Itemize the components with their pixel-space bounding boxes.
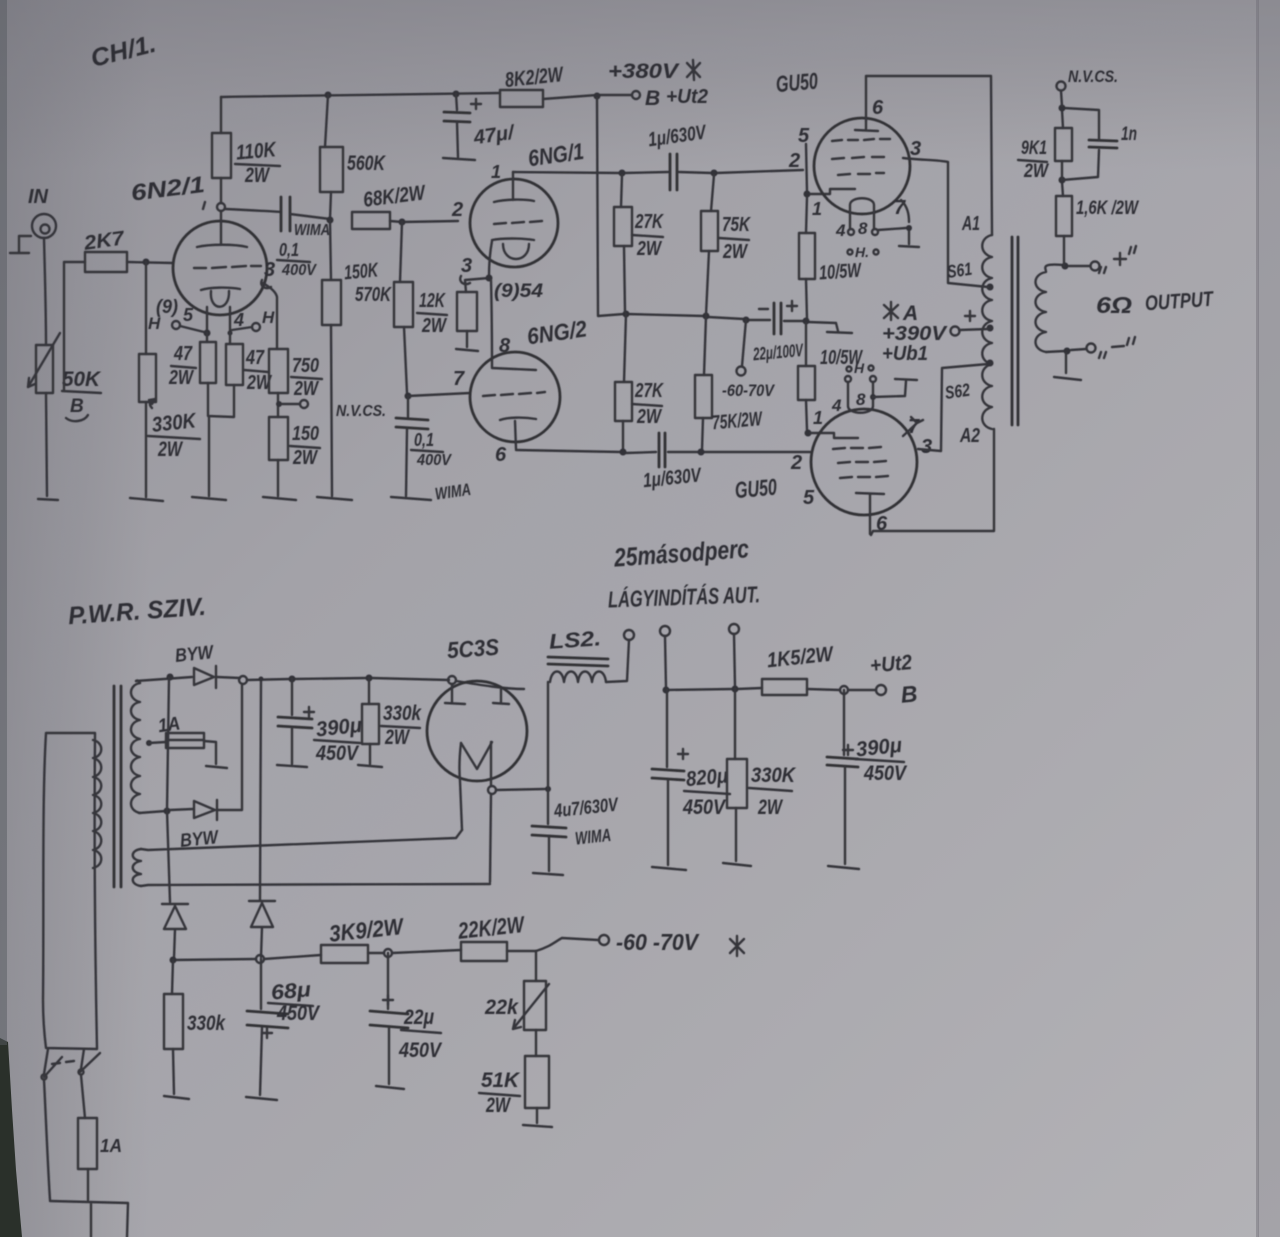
label 25 masodperc bbox=[612, 533, 750, 572]
svg-text:22μ: 22μ bbox=[403, 1006, 434, 1029]
svg-text:1A: 1A bbox=[100, 1136, 122, 1156]
svg-text:5: 5 bbox=[798, 125, 810, 147]
diode bias right bbox=[249, 901, 275, 957]
wire jack to pot bbox=[44, 238, 46, 345]
node cathode output bbox=[488, 786, 551, 794]
primary winding OPT bbox=[982, 235, 992, 429]
svg-text:4: 4 bbox=[233, 310, 244, 330]
terminal output plus bbox=[1069, 246, 1136, 273]
GU50 lower grid dashes bbox=[833, 447, 888, 478]
svg-text:(9)54: (9)54 bbox=[494, 281, 543, 302]
resistor 560K bbox=[320, 95, 386, 219]
resistor 1,6K/2W bbox=[1056, 182, 1140, 266]
svg-text:5: 5 bbox=[183, 305, 194, 325]
ground bar under 390u bbox=[277, 765, 307, 767]
label * A +390V +Ub1 bbox=[882, 302, 948, 365]
tube 6NG/2 label bbox=[525, 315, 588, 349]
potentiometer 50K/B bbox=[28, 333, 102, 421]
diode BYW upper bbox=[174, 642, 216, 688]
svg-text:390μ: 390μ bbox=[315, 714, 363, 742]
svg-text:330K: 330K bbox=[151, 409, 199, 437]
ground bar under 820u bbox=[652, 867, 686, 870]
terminal output minus bbox=[1071, 337, 1135, 358]
ground bar under 22u bbox=[376, 1086, 404, 1089]
tube GU50 lower envelope bbox=[811, 409, 917, 515]
resistor 8K2/2W bbox=[500, 63, 566, 107]
svg-text:B: B bbox=[70, 396, 84, 417]
node HV bottom bbox=[139, 808, 171, 815]
resistor 150/2W bbox=[269, 417, 320, 469]
B+ rail bbox=[663, 686, 877, 695]
svg-text:H: H bbox=[262, 308, 275, 327]
svg-text:+Ut2: +Ut2 bbox=[869, 651, 913, 678]
5C3S filament bbox=[461, 742, 492, 769]
node grid 6NG/2 bbox=[405, 368, 471, 400]
ground bar under 4u7 bbox=[533, 873, 563, 875]
capacitor 68u/450V bbox=[247, 959, 321, 1095]
node top wire junctions bbox=[325, 91, 601, 100]
svg-text:B: B bbox=[645, 87, 660, 110]
capacitor 22u/100V bbox=[752, 301, 805, 364]
node PSU top junctions bbox=[167, 674, 457, 685]
GU50 lower heater terminals 4 8 H bbox=[831, 360, 876, 415]
top B+ wire bbox=[221, 93, 631, 99]
ground bar under 47u bbox=[443, 158, 475, 160]
heater winding bbox=[133, 849, 141, 886]
svg-text:+Ub1: +Ub1 bbox=[882, 343, 928, 365]
tube 6NG/2 pin6 out bbox=[495, 421, 516, 466]
svg-text:1: 1 bbox=[813, 408, 823, 428]
ground bar mid rail right bbox=[827, 332, 852, 333]
anode loop wire A1 bbox=[866, 76, 992, 235]
svg-text:+380V: +380V bbox=[608, 60, 680, 83]
OPT core bbox=[1012, 237, 1018, 425]
wire switch left down bbox=[44, 1080, 50, 1200]
ground bar under 150K bbox=[317, 497, 352, 500]
svg-text:1n: 1n bbox=[1121, 124, 1137, 145]
svg-text:6: 6 bbox=[495, 444, 507, 466]
title P.W.R. SZIV. bbox=[67, 593, 207, 631]
svg-text:450V: 450V bbox=[276, 1002, 321, 1025]
svg-text:450V: 450V bbox=[863, 762, 908, 785]
tube 6N2/1 label bbox=[129, 171, 206, 209]
svg-text:9K1: 9K1 bbox=[1021, 138, 1047, 159]
svg-text:4: 4 bbox=[831, 396, 842, 415]
svg-text:400V: 400V bbox=[281, 262, 317, 279]
dark photo edge left strip bbox=[0, 0, 7, 1045]
svg-text:4: 4 bbox=[835, 221, 846, 240]
svg-text:2W: 2W bbox=[292, 447, 318, 469]
fuse 1A mains bbox=[78, 1075, 122, 1200]
svg-text:2W: 2W bbox=[636, 238, 662, 260]
svg-text:820μ: 820μ bbox=[685, 764, 729, 791]
terminal B +Ut2 bbox=[632, 86, 708, 110]
resistor 330K/2W grid leak bbox=[139, 262, 200, 461]
capacitor 390u/450V second bbox=[827, 690, 908, 864]
upper coupling wire bbox=[513, 170, 803, 177]
svg-text:+390V: +390V bbox=[882, 323, 948, 345]
ground bar under 330k bbox=[358, 765, 382, 767]
capacitor 820u/450V bbox=[652, 690, 730, 865]
resistor 12K/2W cathode bbox=[417, 278, 489, 347]
svg-text:75K: 75K bbox=[722, 214, 751, 236]
lower coupling wire bbox=[516, 449, 810, 456]
pin labels (9) H 5 4 H of 6N2/1 bbox=[148, 297, 275, 333]
node S62 tap bbox=[987, 360, 994, 367]
mains enclosure bbox=[43, 733, 97, 1049]
capacitor 1u/630V upper bbox=[647, 121, 709, 190]
choke LS2 bbox=[548, 627, 629, 789]
svg-text:330k: 330k bbox=[187, 1012, 226, 1035]
node center tap bbox=[987, 325, 994, 332]
node NVCS bottom bbox=[1059, 105, 1066, 112]
svg-text:27K: 27K bbox=[634, 211, 664, 233]
resistor 9K1/2W bbox=[1018, 110, 1072, 182]
secondary winding OPT bbox=[1036, 265, 1064, 352]
wire 330K to ground bbox=[145, 402, 147, 497]
node cathode 6NG/1 bbox=[486, 241, 493, 282]
svg-text:-60 -70V: -60 -70V bbox=[616, 929, 700, 955]
bias rail bbox=[170, 949, 537, 964]
tube 5C3S label bbox=[446, 634, 500, 664]
svg-text:450V: 450V bbox=[398, 1039, 443, 1062]
terminal +390V center tap bbox=[951, 311, 989, 336]
terminal soft start b bbox=[729, 624, 739, 687]
bias feed vertical 1 bbox=[167, 678, 170, 902]
dark photo edge bottom-left bbox=[0, 1038, 22, 1237]
wire pin3 to 750 bbox=[263, 283, 277, 349]
svg-text:3: 3 bbox=[264, 259, 275, 281]
PSU top wire bbox=[136, 677, 524, 689]
bias feed vertical 2 bbox=[259, 677, 264, 901]
svg-text:IN: IN bbox=[28, 186, 49, 208]
svg-text:400V: 400V bbox=[416, 452, 452, 469]
GU50 upper pin7 to ground bbox=[878, 197, 912, 244]
tube 6NG/1 plate bbox=[494, 172, 534, 202]
svg-text:B: B bbox=[900, 680, 919, 707]
GU50 lower cathode heater bbox=[848, 382, 873, 413]
svg-text:N.V.CS.: N.V.CS. bbox=[336, 403, 386, 420]
svg-text:-60-70V: -60-70V bbox=[722, 381, 775, 400]
node secondary top bbox=[1062, 263, 1069, 270]
svg-text:50K: 50K bbox=[62, 368, 102, 391]
label 6 ohm OUTPUT bbox=[1096, 288, 1215, 318]
GU50 upper cathode heater bbox=[850, 198, 874, 229]
mains switch bbox=[42, 1049, 101, 1080]
svg-text:750: 750 bbox=[292, 355, 319, 377]
tube 6N2/1 grid dashes bbox=[194, 266, 261, 268]
svg-text:2: 2 bbox=[788, 150, 800, 172]
GU50 lower plate pin6 bbox=[856, 493, 888, 535]
GU50 upper heater terminals 4 8 H bbox=[835, 219, 879, 260]
tube 6N2/1 envelope bbox=[173, 221, 267, 315]
GU50 upper plate pin6 bbox=[855, 97, 884, 131]
svg-text:2W: 2W bbox=[421, 315, 447, 337]
svg-text:3: 3 bbox=[921, 436, 932, 458]
svg-text:2W: 2W bbox=[157, 438, 183, 461]
svg-text:450V: 450V bbox=[315, 742, 360, 765]
svg-text:8: 8 bbox=[858, 219, 868, 238]
resistor 150K bbox=[322, 221, 380, 496]
potentiometer 22k bias bbox=[484, 951, 549, 1030]
tube 5C3S envelope bbox=[427, 681, 527, 781]
svg-text:2W: 2W bbox=[293, 378, 319, 400]
svg-text:A2: A2 bbox=[959, 425, 980, 447]
pin 3 label of 6N2/1 bbox=[261, 259, 275, 288]
svg-text:5: 5 bbox=[803, 487, 815, 509]
svg-text:H: H bbox=[148, 314, 161, 333]
resistor 47/2W left bbox=[168, 333, 216, 389]
tube 6NG/1 grid dashes bbox=[494, 221, 542, 224]
ground bar under 330K psu bbox=[723, 863, 751, 866]
svg-text:570K: 570K bbox=[355, 284, 392, 306]
tube GU50 lower label bbox=[734, 452, 815, 509]
svg-text:GU50: GU50 bbox=[775, 67, 819, 97]
wire SRPP link to 6NG/2 plate bbox=[491, 280, 536, 370]
resistor 75K/2W upper bbox=[701, 175, 751, 315]
GU50 lower heater to ground bbox=[870, 381, 906, 400]
svg-text:2: 2 bbox=[790, 452, 802, 474]
tube 6NG/2 envelope bbox=[470, 352, 560, 442]
tube GU50 upper label bbox=[775, 67, 819, 97]
svg-text:68μ: 68μ bbox=[270, 978, 312, 1004]
tube GU50 upper envelope bbox=[814, 118, 910, 214]
resistor 27K/2W lower bbox=[615, 314, 664, 450]
svg-text:5C3S: 5C3S bbox=[446, 634, 500, 664]
capacitor 47u bbox=[444, 94, 517, 157]
input jack IN bbox=[10, 186, 56, 253]
resistor 1K5/2W bbox=[762, 642, 836, 695]
power transformer HV winding bbox=[131, 680, 140, 813]
svg-text:WIMA: WIMA bbox=[574, 825, 612, 849]
resistor 27K/2W upper bbox=[614, 175, 664, 312]
capacitor 4u7/630V WIMA bbox=[532, 789, 620, 871]
svg-text:0,1: 0,1 bbox=[279, 240, 299, 260]
ground bar center tap bbox=[206, 766, 227, 768]
tube 6NG/1 cathode heater bbox=[492, 239, 534, 260]
resistor 10/5W lower bbox=[798, 323, 864, 430]
resistor 330K/2W psu bbox=[727, 689, 797, 861]
svg-text:51K: 51K bbox=[481, 1069, 521, 1092]
terminal -60-70V psu bbox=[536, 929, 744, 956]
tube 6NG/1 label bbox=[451, 138, 585, 221]
node plate pin1 of 6N2/1 bbox=[217, 203, 225, 211]
label S62 bbox=[944, 380, 972, 403]
svg-text:3: 3 bbox=[461, 255, 472, 277]
ground bar pin7 bbox=[899, 246, 919, 247]
svg-text:110K: 110K bbox=[235, 138, 278, 165]
svg-text:6Ω: 6Ω bbox=[1096, 292, 1132, 318]
ground bar under 68u bbox=[246, 1097, 277, 1100]
ground bar under 330K bbox=[130, 498, 163, 501]
GU50 lower grid node pin1 bbox=[805, 408, 859, 438]
svg-text:1: 1 bbox=[491, 162, 501, 182]
terminal soft start a bbox=[660, 626, 670, 688]
label S61 bbox=[946, 259, 974, 282]
node 68K input bbox=[327, 217, 334, 224]
GU50 lower pin7 bbox=[903, 416, 923, 438]
svg-text:330k: 330k bbox=[383, 702, 422, 725]
resistor 75K/2W lower bbox=[695, 316, 764, 450]
mid rail bbox=[623, 311, 839, 332]
svg-text:S62: S62 bbox=[944, 380, 972, 403]
resistor 10/5W upper bbox=[799, 197, 863, 319]
svg-text:LS2.: LS2. bbox=[548, 627, 601, 654]
node 9K1 bottom bbox=[1059, 177, 1066, 184]
terminal choke out bbox=[624, 630, 634, 640]
label LAGYINDITAS AUT bbox=[608, 580, 761, 612]
wires 47 resistors to ground bbox=[208, 383, 234, 496]
GU50 upper grid node pin5 pin2 pin1 bbox=[788, 125, 855, 219]
svg-text:H: H bbox=[854, 360, 865, 376]
resistor 68K/2W bbox=[352, 181, 458, 229]
resistor 2K7 bbox=[64, 227, 127, 390]
tube 6NG/1 envelope bbox=[470, 179, 558, 267]
wire 150 to ground bbox=[277, 460, 279, 496]
svg-text:10/5W: 10/5W bbox=[818, 259, 863, 284]
svg-text:2W: 2W bbox=[485, 1094, 511, 1117]
svg-text:0,1: 0,1 bbox=[414, 430, 434, 450]
svg-text:47: 47 bbox=[173, 343, 193, 365]
svg-text:1,6K /2W: 1,6K /2W bbox=[1076, 198, 1140, 219]
heater line top bbox=[141, 830, 462, 850]
svg-text:2W: 2W bbox=[1023, 161, 1050, 182]
svg-text:2W: 2W bbox=[168, 367, 194, 389]
svg-text:75K/2W: 75K/2W bbox=[711, 408, 764, 434]
resistor 570K bbox=[355, 222, 413, 393]
svg-text:27K: 27K bbox=[634, 380, 664, 402]
5C3S anode left bbox=[445, 684, 465, 704]
ground bar under WIMA2 bbox=[391, 497, 431, 500]
terminal -60-70V tap bbox=[722, 320, 775, 400]
diode BYW lower bbox=[170, 684, 242, 852]
svg-text:1: 1 bbox=[812, 199, 822, 219]
svg-text:N.V.CS.: N.V.CS. bbox=[1068, 67, 1118, 86]
capacitor 1n parallel bbox=[1062, 108, 1137, 180]
heater line bottom bbox=[141, 884, 490, 886]
svg-text:150: 150 bbox=[292, 423, 319, 445]
capacitor WIMA 0,1/400V second bbox=[396, 396, 472, 504]
power transformer core bbox=[114, 686, 121, 887]
svg-text:2W: 2W bbox=[636, 406, 662, 428]
svg-text:47: 47 bbox=[245, 347, 265, 369]
resistor 3K9/2W bbox=[321, 913, 406, 963]
node secondary bottom bbox=[1046, 348, 1071, 355]
diode bias left bbox=[162, 904, 188, 958]
B+ feed vertical bbox=[597, 98, 624, 316]
fuse 1A center tap bbox=[146, 713, 216, 764]
resistor 750/2W bbox=[269, 349, 322, 400]
tube 6NG/2 cathode bbox=[500, 418, 536, 420]
svg-text:2W: 2W bbox=[384, 726, 410, 749]
resistor 51K/2W bbox=[479, 1030, 549, 1123]
svg-text:2W: 2W bbox=[757, 796, 783, 819]
svg-text:8: 8 bbox=[856, 390, 866, 409]
mains cord to edge bbox=[50, 1201, 128, 1237]
svg-text:560K: 560K bbox=[347, 152, 386, 175]
svg-text:S61: S61 bbox=[946, 259, 974, 282]
svg-text:A1: A1 bbox=[961, 213, 980, 235]
svg-text:+Ut2: +Ut2 bbox=[666, 86, 708, 108]
resistor 330k bias bbox=[164, 960, 226, 1094]
svg-text:LÁGYINDÍTÁS AUT.: LÁGYINDÍTÁS AUT. bbox=[608, 580, 761, 612]
capacitor 1u/630V lower bbox=[642, 433, 703, 492]
anode loop wire A2 bottom bbox=[871, 429, 994, 535]
svg-text:12K: 12K bbox=[419, 290, 446, 312]
node 750 bottom with wiper bbox=[276, 393, 308, 417]
GU50 lower pin3 screen wire bbox=[918, 364, 988, 458]
node heater pin5 bbox=[204, 330, 233, 337]
label N.V.CS. bbox=[336, 403, 386, 420]
capacitor WIMA 0,1/400V first bbox=[225, 197, 330, 279]
svg-text:2W: 2W bbox=[244, 164, 270, 187]
ground bar under 47s bbox=[192, 497, 226, 500]
resistor 22K/2W bbox=[456, 911, 527, 961]
ground bar under pot bbox=[38, 499, 58, 500]
wire S61 from upper pin3 bbox=[903, 138, 988, 287]
svg-text:2: 2 bbox=[451, 199, 463, 221]
svg-text:330K: 330K bbox=[751, 764, 797, 787]
svg-text:OUTPUT: OUTPUT bbox=[1144, 288, 1215, 316]
svg-text:A: A bbox=[902, 302, 918, 325]
capacitor 22u/450V bbox=[370, 953, 443, 1084]
svg-text:2W: 2W bbox=[722, 241, 748, 263]
terminal B +Ut2 psu bbox=[869, 651, 918, 708]
title CH/1 bbox=[88, 30, 159, 73]
label (9)54 bbox=[494, 281, 543, 302]
svg-text:BYW: BYW bbox=[174, 642, 216, 667]
GU50 upper grid dashes bbox=[832, 139, 890, 175]
label A2 bbox=[959, 425, 980, 447]
right paper edge shadow bbox=[1256, 0, 1280, 1237]
ground bar under 390u second bbox=[828, 866, 859, 869]
label +380V with asterisk bbox=[608, 60, 700, 83]
resistor 110K/2W bbox=[212, 97, 280, 203]
wire 2K7 to tube grid bbox=[127, 259, 173, 266]
5C3S filament legs bbox=[459, 742, 491, 882]
5C3S anode right bbox=[493, 689, 509, 704]
tube 6N2/1 cathode and heater bbox=[201, 288, 240, 331]
ground bar secondary bbox=[1054, 353, 1081, 380]
node S61 tap bbox=[987, 284, 994, 291]
ground bar under 51K bbox=[523, 1125, 552, 1127]
wire pot to ground bbox=[46, 393, 47, 496]
svg-text:22k: 22k bbox=[484, 996, 519, 1019]
svg-text:3: 3 bbox=[910, 138, 921, 160]
resistor 330k/2W bleeder bbox=[362, 678, 422, 764]
svg-text:H.: H. bbox=[855, 244, 869, 260]
ground bar above bbox=[895, 379, 917, 380]
svg-text:390μ: 390μ bbox=[855, 734, 903, 762]
capacitor 390u/450V first filter bbox=[278, 679, 363, 765]
svg-text:450V: 450V bbox=[682, 796, 727, 819]
bar under 12K bbox=[456, 349, 478, 351]
svg-text:7: 7 bbox=[453, 368, 465, 390]
ground bar under 330k bias bbox=[164, 1096, 189, 1099]
mains primary winding bbox=[93, 740, 101, 868]
pin 3 label 6NG/1 bbox=[460, 255, 472, 284]
resistor 47/2W right bbox=[226, 333, 273, 394]
svg-text:WIMA: WIMA bbox=[294, 222, 330, 239]
svg-text:6: 6 bbox=[872, 97, 884, 119]
tube 6NG/2 grid dashes bbox=[483, 392, 545, 396]
terminal N.V.CS. bbox=[1057, 67, 1119, 106]
tube 6N2/1 plate bbox=[197, 211, 247, 247]
ground bar under 150 bbox=[263, 497, 296, 500]
svg-text:150K: 150K bbox=[343, 259, 380, 284]
svg-text:GU50: GU50 bbox=[734, 474, 778, 504]
